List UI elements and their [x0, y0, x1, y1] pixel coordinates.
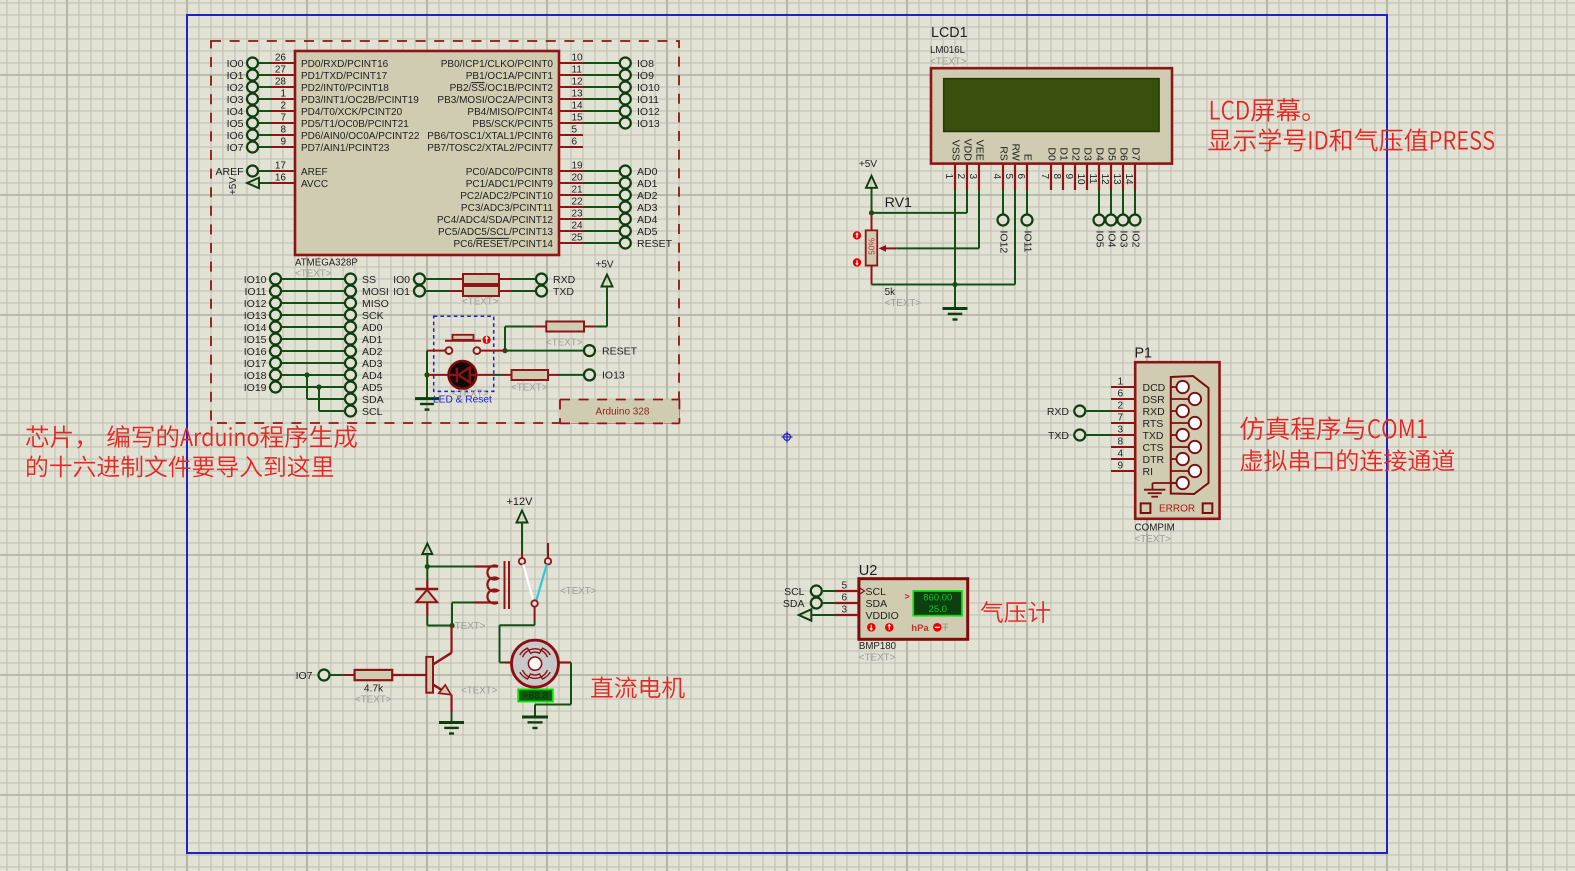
- P1 ERROR indicator: [1141, 503, 1213, 514]
- wire terminal IO10 to terminal SS: [244, 274, 376, 286]
- svg-text:IO11: IO11: [245, 286, 267, 298]
- svg-text:RS: RS: [997, 146, 1009, 161]
- svg-text:+12V: +12V: [507, 496, 534, 508]
- svg-text:11: 11: [1087, 174, 1098, 185]
- resistor 4.7k base: [330, 670, 427, 680]
- pin 17 AREF with terminal AREF: [215, 161, 327, 178]
- wire terminal IO17 to terminal AD3: [244, 358, 383, 370]
- svg-text:IO16: IO16: [244, 346, 267, 358]
- svg-text:12: 12: [572, 77, 584, 88]
- U2 interactive down button: [867, 623, 876, 632]
- terminal IO12 (LCD RS): [997, 190, 1009, 253]
- pin 14 PB4/MISO/PCINT4 with terminal IO12: [467, 101, 660, 118]
- terminal TXD (to P1): [1048, 430, 1111, 442]
- terminal chain SS-SCL: [349, 279, 352, 411]
- RV1 interactive down button: [853, 258, 861, 266]
- svg-text:AREF: AREF: [215, 166, 243, 178]
- svg-text:SS: SS: [362, 274, 376, 286]
- svg-text:PC5/ADC5/SCL/PCINT13: PC5/ADC5/SCL/PCINT13: [438, 227, 553, 238]
- svg-text:SCL: SCL: [362, 406, 383, 418]
- wire terminal IO14 to terminal AD0: [244, 322, 383, 334]
- pin 26 PD0/RXD/PCINT16 with terminal IO0: [227, 53, 389, 70]
- pin 27 PD1/TXD/PCINT17 with terminal IO1: [227, 65, 388, 82]
- svg-text:LCD1: LCD1: [931, 25, 968, 41]
- svg-text:IO11: IO11: [1021, 231, 1033, 253]
- wire IO18 branch to SDA with junction: [304, 372, 345, 399]
- svg-text:2: 2: [955, 174, 966, 180]
- wire LCD RW to ground rail: [1014, 190, 1016, 285]
- svg-text:PB1/OC1A/PCINT1: PB1/OC1A/PCINT1: [466, 71, 554, 82]
- svg-text:13: 13: [572, 89, 584, 100]
- svg-text:<TEXT>: <TEXT>: [1135, 534, 1172, 545]
- svg-text:D5: D5: [1105, 147, 1117, 161]
- P1 DB9 connector graphic: [1171, 376, 1209, 494]
- svg-text:RESET: RESET: [602, 345, 638, 357]
- terminal IO4 (LCD data): [1105, 190, 1117, 248]
- svg-text:17: 17: [275, 161, 287, 172]
- LCD pin 7 D0: [1039, 147, 1057, 190]
- svg-text:IO9: IO9: [637, 70, 654, 82]
- svg-text:D1: D1: [1057, 147, 1069, 161]
- svg-text:4: 4: [991, 174, 1002, 180]
- svg-text:15: 15: [572, 113, 584, 124]
- LCD pin 6 E: [1015, 154, 1033, 190]
- LCD pin 8 D1: [1051, 147, 1069, 190]
- P1 pin 1 DCD: [1111, 377, 1166, 394]
- LCD pin 2 VDD: [955, 139, 973, 190]
- red annotation: COM1 note: [1240, 417, 1426, 441]
- pin 21 PC2/ADC2/PCINT10 with terminal AD2: [460, 185, 657, 202]
- terminal SCL: [345, 406, 383, 418]
- resistor TX (IO1 to TXD): [425, 286, 536, 296]
- svg-text:IO14: IO14: [244, 322, 267, 334]
- svg-text:VSS: VSS: [949, 140, 961, 161]
- svg-text:IO10: IO10: [244, 274, 267, 286]
- pin 24 PC5/ADC5/SCL/PCINT13 with terminal AD5: [438, 221, 658, 238]
- svg-text:LM016L: LM016L: [930, 45, 966, 56]
- wire motor to ground: [535, 663, 571, 718]
- svg-text:P1: P1: [1135, 346, 1153, 362]
- svg-text:PC1/ADC1/PCINT9: PC1/ADC1/PCINT9: [466, 179, 554, 190]
- svg-text:PD5/T1/OC0B/PCINT21: PD5/T1/OC0B/PCINT21: [301, 119, 409, 130]
- svg-text:D2: D2: [1069, 147, 1081, 161]
- svg-text:RESET: RESET: [637, 238, 673, 250]
- svg-text:PC6/RESET/PCINT14: PC6/RESET/PCINT14: [454, 239, 554, 250]
- svg-text:19: 19: [572, 161, 584, 172]
- P1 pin 6 DSR: [1111, 389, 1165, 406]
- LCD pin 9 D2: [1063, 147, 1081, 190]
- LCD pin 12 D5: [1099, 147, 1117, 190]
- U2 pin 6 SDA: [835, 593, 887, 610]
- svg-text:PB2/SS/OC1B/PCINT2: PB2/SS/OC1B/PCINT2: [450, 83, 554, 94]
- svg-text:AD2: AD2: [362, 346, 383, 358]
- chip U? ATMEGA328P body: [295, 51, 559, 255]
- terminal RESET: [584, 345, 638, 357]
- P1 pin 3 TXD: [1111, 425, 1164, 442]
- svg-text:21: 21: [572, 185, 584, 196]
- svg-text:3: 3: [967, 174, 978, 180]
- svg-text:IO19: IO19: [244, 382, 267, 394]
- pin 25 PC6/RESET/PCINT14 with terminal RESET: [454, 233, 673, 250]
- terminal RXD: [536, 274, 576, 292]
- terminal SCL (U2): [784, 586, 835, 604]
- svg-text:860.00: 860.00: [923, 593, 952, 604]
- power +5V (RV1): [859, 159, 877, 215]
- svg-text:26: 26: [275, 53, 287, 64]
- svg-text:E: E: [1021, 154, 1033, 161]
- svg-text:SDA: SDA: [866, 598, 888, 610]
- terminal IO7: [296, 670, 330, 682]
- connector P1 COMPIM body: [1135, 362, 1219, 519]
- svg-text:AVCC: AVCC: [301, 179, 328, 190]
- Arduino 328 subcircuit name box: [560, 400, 680, 424]
- potentiometer RV1: [866, 213, 897, 266]
- svg-text:PB7/TOSC2/XTAL2/PCINT7: PB7/TOSC2/XTAL2/PCINT7: [427, 143, 553, 154]
- svg-text:PC3/ADC3/PCINT11: PC3/ADC3/PCINT11: [461, 203, 554, 214]
- svg-text:AD4: AD4: [637, 214, 658, 226]
- svg-text:U2: U2: [859, 563, 878, 579]
- terminal SDA (U2): [783, 598, 835, 610]
- sensor U2 BMP180 body: [859, 579, 968, 640]
- svg-text:DTR: DTR: [1143, 454, 1165, 466]
- overline SS on PB2 pin: [471, 82, 484, 84]
- U2 pin 5 SCL: [835, 581, 886, 598]
- pin 22 PC3/ADC3/PCINT11 with terminal AD3: [461, 197, 658, 214]
- svg-text:24: 24: [572, 221, 584, 232]
- U2 pressure display: [905, 591, 963, 616]
- svg-text:IO15: IO15: [244, 334, 267, 346]
- red annotation: chip note line2: [27, 455, 333, 477]
- wire LCD VSS to ground rail: [954, 190, 956, 285]
- red annotation: chip note line1: [26, 425, 357, 448]
- svg-text:27: 27: [275, 65, 287, 76]
- svg-text:5: 5: [1003, 174, 1014, 180]
- svg-text:25.0: 25.0: [929, 604, 948, 615]
- svg-text:TXD: TXD: [1143, 430, 1164, 442]
- svg-text:IO13: IO13: [637, 118, 660, 130]
- pin 15 PB5/SCK/PCINT5 with terminal IO13: [472, 113, 660, 130]
- transistor Q? NPN: [426, 626, 451, 723]
- svg-text:7: 7: [1117, 413, 1123, 424]
- svg-text:3: 3: [1117, 425, 1123, 436]
- U2 interactive mode button: [933, 623, 942, 632]
- pin 23 PC4/ADC4/SDA/PCINT12 with terminal AD4: [437, 209, 658, 226]
- relay switch left contact: [519, 558, 525, 564]
- P1 internal ground symbol: [1144, 483, 1177, 497]
- svg-text:<TEXT>: <TEXT>: [355, 695, 392, 706]
- pin 13 PB3/MOSI/OC2A/PCINT3 with terminal IO11: [437, 89, 659, 106]
- terminal SDA: [345, 394, 384, 406]
- svg-text:TXD: TXD: [553, 286, 574, 298]
- svg-text:PD1/TXD/PCINT17: PD1/TXD/PCINT17: [301, 71, 388, 82]
- svg-text:PB6/TOSC1/XTAL1/PCINT6: PB6/TOSC1/XTAL1/PCINT6: [427, 131, 553, 142]
- svg-text:RI: RI: [1143, 466, 1154, 478]
- svg-text:IO13: IO13: [602, 370, 625, 382]
- resistor reset pull-up: [505, 322, 607, 332]
- svg-text:<TEXT>: <TEXT>: [546, 338, 583, 349]
- svg-text:SDA: SDA: [783, 598, 805, 610]
- svg-text:RXD: RXD: [553, 274, 576, 286]
- svg-text:PD4/T0/XCK/PCINT20: PD4/T0/XCK/PCINT20: [301, 107, 403, 118]
- wire IO19 branch to SCL with junction: [316, 384, 345, 411]
- svg-text:9: 9: [1063, 174, 1074, 180]
- svg-text:PB5/SCK/PCINT5: PB5/SCK/PCINT5: [472, 119, 553, 130]
- svg-text:2: 2: [1117, 401, 1123, 412]
- svg-text:5: 5: [841, 581, 847, 592]
- svg-text:IO2: IO2: [1129, 231, 1141, 248]
- svg-text:IO3: IO3: [1117, 231, 1129, 248]
- svg-text:IO18: IO18: [244, 370, 267, 382]
- wire relay common to motor: [500, 607, 535, 663]
- svg-text:VDD: VDD: [961, 139, 973, 162]
- pin 20 PC1/ADC1/PCINT9 with terminal AD1: [466, 173, 658, 190]
- svg-text:7: 7: [1039, 174, 1050, 180]
- ground (LED/button): [415, 397, 439, 400]
- svg-text:IO1: IO1: [227, 70, 244, 82]
- svg-text:IO7: IO7: [227, 142, 244, 154]
- svg-text:SCL: SCL: [866, 586, 887, 598]
- motor M? DC: [505, 640, 571, 687]
- svg-text:AD3: AD3: [637, 202, 658, 214]
- pin 2 PD4/T0/XCK/PCINT20 with terminal IO4: [227, 101, 403, 118]
- pin 10 PB0/ICP1/CLKO/PCINT0 with terminal IO8: [441, 53, 654, 70]
- svg-text:<TEXT>: <TEXT>: [560, 586, 597, 597]
- pin 6 PB7/TOSC2/XTAL2/PCINT7: [427, 137, 583, 154]
- pin 11 PB1/OC1A/PCINT1 with terminal IO9: [466, 65, 654, 82]
- svg-text:23: 23: [572, 209, 584, 220]
- svg-text:PB0/ICP1/CLKO/PCINT0: PB0/ICP1/CLKO/PCINT0: [441, 59, 554, 70]
- terminal IO2 (LCD data): [1129, 190, 1141, 248]
- terminal IO0 (serial): [393, 274, 425, 292]
- svg-text:TXD: TXD: [1048, 430, 1069, 442]
- svg-text:6: 6: [1117, 389, 1123, 400]
- power +12V: [507, 496, 534, 558]
- svg-text:20: 20: [572, 173, 584, 184]
- RV1 interactive up button: [853, 231, 861, 239]
- resistor RX (IO0 to RXD): [425, 274, 536, 284]
- svg-text:DSR: DSR: [1143, 394, 1166, 406]
- svg-text:<TEXT>: <TEXT>: [885, 298, 922, 309]
- svg-text:6: 6: [572, 137, 578, 148]
- wire terminal IO19 to terminal AD5: [244, 382, 383, 394]
- svg-text:IO10: IO10: [637, 82, 660, 94]
- U2 pin 3 VDDIO: [835, 605, 899, 622]
- terminal chain AD0-RESET: [624, 171, 627, 243]
- svg-text:RXD: RXD: [1143, 406, 1166, 418]
- ground (motor): [522, 716, 548, 719]
- svg-text:<TEXT>: <TEXT>: [295, 269, 332, 280]
- pin 7 PD5/T1/OC0B/PCINT21 with terminal IO5: [227, 113, 410, 130]
- svg-text:PC2/ADC2/PCINT10: PC2/ADC2/PCINT10: [460, 191, 553, 202]
- svg-text:RV1: RV1: [885, 195, 912, 211]
- P1 pin 4 DTR: [1111, 449, 1164, 466]
- svg-text:PD7/AIN1/PCINT23: PD7/AIN1/PCINT23: [301, 143, 390, 154]
- terminal chain IO8-IO13: [624, 63, 627, 123]
- svg-text:COMPIM: COMPIM: [1135, 523, 1175, 534]
- svg-text:IO8: IO8: [637, 58, 654, 70]
- svg-text:IO4: IO4: [227, 106, 244, 118]
- svg-text:DCD: DCD: [1143, 382, 1166, 394]
- svg-text:<TEXT>: <TEXT>: [859, 653, 896, 664]
- svg-text:IO12: IO12: [997, 231, 1009, 254]
- svg-text:9: 9: [280, 137, 286, 148]
- svg-text:AD1: AD1: [362, 334, 383, 346]
- svg-text:>: >: [905, 592, 910, 602]
- svg-text:PB4/MISO/PCINT4: PB4/MISO/PCINT4: [467, 107, 553, 118]
- svg-text:16: 16: [275, 173, 287, 184]
- svg-text:7: 7: [280, 113, 286, 124]
- pin 1 PD3/INT1/OC2B/PCINT19 with terminal IO3: [227, 89, 420, 106]
- svg-text:D0: D0: [1045, 147, 1057, 161]
- pin 16 AVCC with +5V power arrow: [228, 173, 328, 196]
- terminal IO11 (LCD E): [1021, 190, 1033, 253]
- svg-text:<TEXT>: <TEXT>: [462, 297, 499, 308]
- svg-text:+88.8: +88.8: [523, 691, 549, 702]
- svg-text:AD2: AD2: [637, 190, 658, 202]
- relay switch white lever: [523, 564, 533, 601]
- subcircuit dashed boundary: [211, 41, 679, 423]
- power arrow VDDIO: [799, 609, 835, 620]
- svg-text:D7: D7: [1129, 147, 1141, 161]
- svg-text:8: 8: [1117, 437, 1123, 448]
- svg-text:28: 28: [275, 77, 287, 88]
- relay switch cyan lever: [536, 564, 547, 601]
- svg-text:MISO: MISO: [362, 298, 389, 310]
- svg-text:IO17: IO17: [244, 358, 267, 370]
- svg-text:VEE: VEE: [973, 140, 985, 161]
- terminal chain IO10-IO19: [274, 279, 277, 387]
- svg-text:IO1: IO1: [393, 286, 410, 298]
- wire terminal IO12 to terminal MISO: [244, 298, 389, 310]
- svg-text:5: 5: [572, 125, 578, 136]
- red annotation: LCD screen note: [1211, 98, 1310, 121]
- resistor LED to IO13: [477, 370, 584, 380]
- LCD pin 3 VEE: [967, 140, 985, 190]
- svg-text:1: 1: [943, 174, 954, 180]
- svg-text:4.7k: 4.7k: [364, 684, 384, 695]
- svg-text:D6: D6: [1117, 147, 1129, 161]
- power +5V (reset pull-up): [595, 260, 613, 327]
- LCD screen: [944, 79, 1159, 132]
- svg-text:<TEXT>: <TEXT>: [449, 621, 486, 632]
- power arrow (relay coil supply): [422, 544, 432, 570]
- svg-text:PD6/AIN0/OC0A/PCINT22: PD6/AIN0/OC0A/PCINT22: [301, 131, 420, 142]
- relay switch common pole: [531, 600, 537, 606]
- wire terminal IO11 to terminal MOSI: [245, 286, 389, 298]
- svg-text:IO12: IO12: [244, 298, 267, 310]
- svg-text:RTS: RTS: [1143, 418, 1164, 430]
- svg-text:PB3/MOSI/OC2A/PCINT3: PB3/MOSI/OC2A/PCINT3: [437, 95, 553, 106]
- svg-text:5k: 5k: [885, 287, 895, 298]
- svg-text:ATMEGA328P: ATMEGA328P: [295, 258, 358, 269]
- svg-text:12: 12: [1099, 174, 1110, 186]
- wire button to LED and ground: [424, 351, 429, 399]
- svg-text:1: 1: [280, 89, 286, 100]
- svg-text:6: 6: [1015, 174, 1026, 180]
- svg-text:+5V: +5V: [595, 260, 613, 271]
- wire pull-up to reset node: [502, 327, 584, 354]
- terminal TXD: [536, 286, 574, 298]
- LCD pin 11 D4: [1087, 147, 1105, 190]
- svg-text:<TEXT>: <TEXT>: [461, 686, 498, 697]
- svg-text:IO11: IO11: [637, 94, 659, 106]
- svg-text:14: 14: [572, 101, 584, 112]
- svg-text:8: 8: [1051, 174, 1062, 180]
- svg-text:AREF: AREF: [301, 167, 328, 178]
- P1 pin 9 RI: [1111, 461, 1153, 478]
- svg-text:25: 25: [572, 233, 584, 244]
- svg-text:SCK: SCK: [362, 310, 384, 322]
- wire coil to collector junction: [427, 603, 454, 629]
- pin 5 PB6/TOSC1/XTAL1/PCINT6: [427, 125, 583, 142]
- LED D? red: [427, 361, 477, 389]
- wire LCD VEE to RV1 wiper: [896, 190, 979, 248]
- svg-text:AD0: AD0: [637, 166, 658, 178]
- pin 19 PC0/ADC0/PCINT8 with terminal AD0: [466, 161, 658, 178]
- P1 pin 8 CTS: [1111, 437, 1164, 454]
- svg-text:4: 4: [1117, 449, 1123, 460]
- pin 9 PD7/AIN1/PCINT23 with terminal IO7: [227, 137, 390, 154]
- svg-text:6: 6: [841, 593, 847, 604]
- svg-text:<TEXT>: <TEXT>: [930, 57, 967, 68]
- pin 12 PB2/SS/OC1B/PCINT2 with terminal IO10: [450, 77, 660, 94]
- svg-text:IO7: IO7: [296, 670, 313, 682]
- U2 grey mark: [943, 624, 949, 631]
- red annotation: barometer: [981, 601, 1050, 623]
- svg-text:IO3: IO3: [227, 94, 244, 106]
- LED and Reset dashed group box: [434, 316, 494, 391]
- svg-text:ERROR: ERROR: [1159, 503, 1195, 514]
- push button (reset): [427, 335, 505, 354]
- U2 interactive up button: [885, 623, 894, 632]
- svg-text:+5V: +5V: [859, 159, 877, 170]
- wire terminal IO18 to terminal AD4: [244, 370, 383, 382]
- svg-text:13: 13: [1111, 174, 1122, 186]
- svg-text:IO5: IO5: [1093, 231, 1105, 248]
- svg-text:CTS: CTS: [1143, 442, 1164, 454]
- wire terminal IO16 to terminal AD2: [244, 346, 383, 358]
- svg-text:PD0/RXD/PCINT16: PD0/RXD/PCINT16: [301, 59, 389, 70]
- svg-text:SDA: SDA: [362, 394, 384, 406]
- wire terminal IO15 to terminal AD1: [244, 334, 383, 346]
- svg-text:11: 11: [572, 65, 583, 76]
- svg-text:22: 22: [572, 197, 584, 208]
- svg-text:MOSI: MOSI: [362, 286, 389, 298]
- svg-text:IO12: IO12: [637, 106, 660, 118]
- wire LCD VDD to +5V rail: [872, 190, 968, 213]
- svg-text:AD5: AD5: [637, 226, 658, 238]
- svg-text:3: 3: [841, 605, 847, 616]
- U2 SCL clock input marker: [860, 588, 865, 594]
- svg-text:AD4: AD4: [362, 370, 383, 382]
- sheet border: [187, 15, 1387, 853]
- svg-text:LED & Reset: LED & Reset: [433, 395, 492, 406]
- svg-text:AD3: AD3: [362, 358, 383, 370]
- svg-text:D3: D3: [1081, 147, 1093, 161]
- svg-text:IO5: IO5: [227, 118, 244, 130]
- svg-text:RW: RW: [1009, 143, 1021, 160]
- svg-text:10: 10: [572, 53, 584, 64]
- motor rpm display: [518, 689, 553, 702]
- svg-text:9: 9: [1117, 461, 1123, 472]
- svg-text:BMP180: BMP180: [859, 641, 897, 652]
- red annotation: DC motor: [591, 677, 685, 699]
- terminal IO1 (serial): [393, 286, 425, 298]
- overline RESET on PC6 pin: [476, 237, 509, 239]
- svg-text:IO6: IO6: [227, 130, 244, 142]
- svg-text:PC0/ADC0/PCINT8: PC0/ADC0/PCINT8: [466, 167, 554, 178]
- svg-text:+5V: +5V: [228, 177, 239, 195]
